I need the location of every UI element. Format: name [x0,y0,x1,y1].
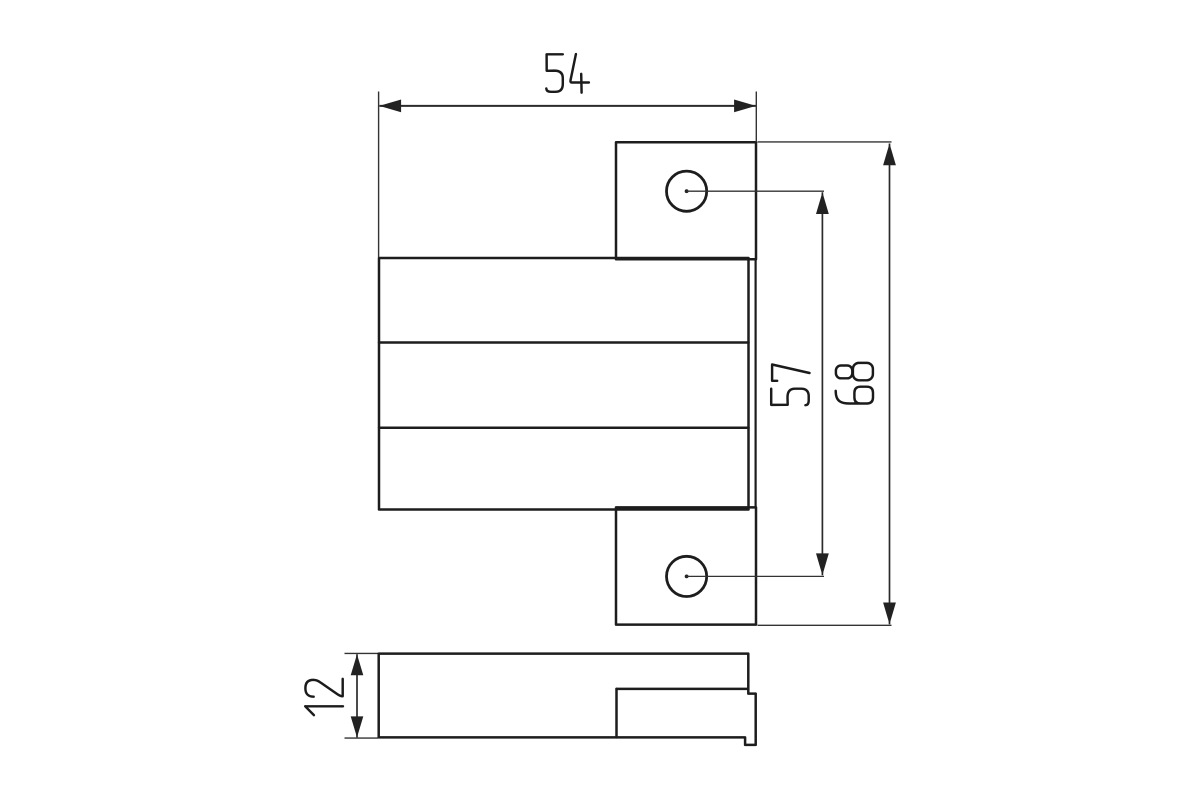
dim 12 bottom arrowhead [351,716,364,737]
side view flange top line [617,688,749,691]
side view flange left line [615,689,618,738]
dim 57 text digit 5 [771,389,809,406]
top hole circle [667,171,707,211]
top mounting tab [616,142,756,259]
main body outline [379,258,749,510]
dim 68 bottom arrowhead [883,603,896,625]
dim 54 right arrowhead [734,100,756,113]
dim 12 top extension line [345,652,379,654]
body divider line 2 [379,426,749,429]
dim 54 left arrowhead [379,100,401,113]
bottom hole circle [667,556,707,596]
dim 68 text digit 8 [836,363,873,380]
dim 68 top arrowhead [883,144,896,166]
bottom mounting tab [616,507,756,624]
dim 54 text digit 4 [570,54,588,93]
dim 57 top arrowhead [816,192,829,214]
top hole center dot [685,189,689,193]
dim 68 dimension line [889,144,891,625]
dim 57 text digit 7 [772,365,809,381]
dim 12 text digit 2 [305,679,342,697]
dim 68 top extension line [758,141,892,143]
dim 57 dimension line [821,192,823,575]
body divider line 1 [379,341,749,344]
dim 12 top arrowhead [351,654,364,675]
dim 54 dimension line [380,105,756,107]
bottom hole center dot [685,575,689,579]
bottom hole leader line [687,575,824,577]
dim 12 bottom extension line [345,737,379,739]
top hole leader line [687,190,824,192]
dim 12 dimension line [356,654,358,737]
tab edge line between tabs [754,259,756,507]
dim 54 left extension line [378,92,380,258]
dim 12 text digit 1 [305,706,343,715]
dim 54 right extension line [755,92,757,143]
dim 68 text digit 6 [836,387,873,404]
dim 54 text digit 5 [546,54,563,92]
side view outline [379,654,756,745]
dim 68 bottom extension line [758,624,892,626]
dim 57 bottom arrowhead [816,553,829,575]
